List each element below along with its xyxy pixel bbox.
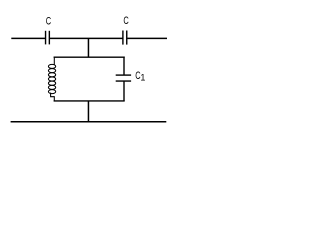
wire top-right segment — [127, 37, 167, 39]
wire top-left segment — [11, 37, 45, 39]
svg-text:C: C — [123, 15, 128, 27]
wire top-middle segment — [50, 37, 123, 39]
wire tank bottom — [54, 100, 125, 102]
capacitor C1 — [116, 75, 131, 81]
label C (right capacitor value) — [123, 15, 128, 27]
capacitor C (left series) — [46, 31, 50, 45]
wire tank right lower — [123, 81, 125, 101]
svg-text:C: C — [46, 15, 51, 27]
wire tank right upper — [123, 57, 125, 76]
svg-text:1: 1 — [140, 73, 145, 83]
inductor L1 — [48, 57, 55, 101]
wire tank top — [54, 56, 125, 58]
wire bottom rail — [11, 121, 167, 123]
node A junction stub (top wire to tank) — [87, 38, 89, 57]
capacitor C (right series) — [123, 31, 127, 45]
label C (left capacitor value) — [46, 15, 51, 27]
node B junction stub (tank to bottom rail) — [87, 101, 89, 122]
label C1 — [135, 70, 145, 83]
